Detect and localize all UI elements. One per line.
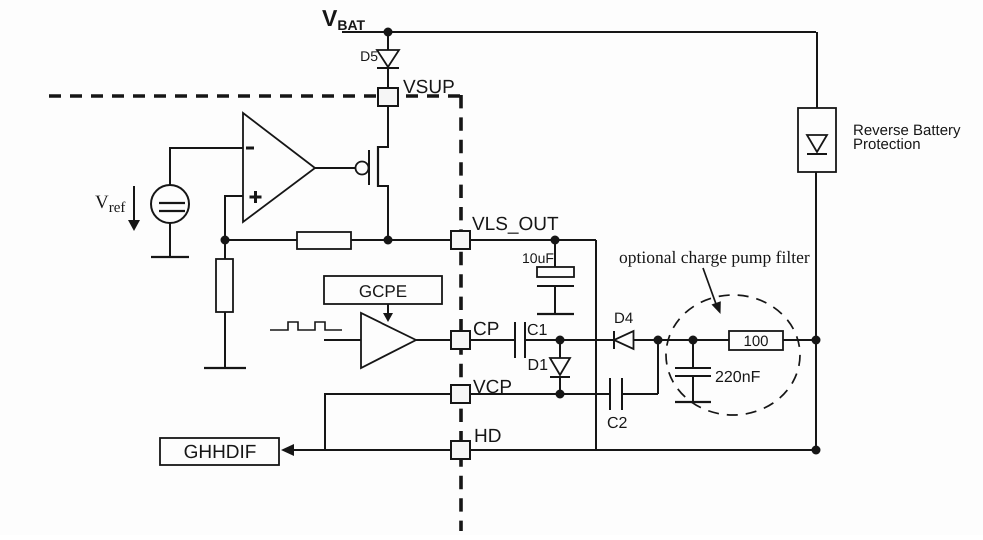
wire op-amp output to gate: [315, 167, 356, 169]
node B junction: [384, 236, 393, 245]
optional filter dashed ellipse: [666, 295, 800, 415]
source Vref: [151, 185, 189, 223]
junction R3/battery net: [812, 336, 821, 345]
wire D4 to node D: [633, 339, 658, 341]
junction VLS_OUT/C10u: [551, 236, 560, 245]
wire HD to battery net: [470, 449, 816, 451]
svg-text:HD: HD: [474, 426, 501, 447]
arrowhead into GHHDIF: [281, 444, 294, 456]
annotation arrow to ellipse: [703, 268, 721, 314]
ground (220nF): [675, 401, 711, 403]
reverse battery protection block: [798, 108, 836, 172]
op-amp U1: [243, 113, 315, 222]
transistor Q1 gate bar: [368, 150, 370, 185]
junction VCP/D1: [556, 390, 565, 399]
wire non-inverting input: [225, 196, 243, 240]
wire Vref to ground: [169, 223, 171, 257]
wire VBAT to D5: [387, 32, 389, 50]
wire node B to VLS_OUT pin: [388, 239, 451, 241]
wire C1 to node C: [525, 339, 560, 341]
wire VBAT to reverse battery block: [816, 32, 818, 108]
node C junction: [556, 336, 565, 345]
wire inverting input to Vref: [170, 148, 243, 185]
svg-text:VLS_OUT: VLS_OUT: [472, 214, 559, 235]
resistor R2: [216, 259, 233, 312]
wire R2 to ground: [224, 312, 226, 368]
pin VCP: [451, 385, 470, 403]
ground (R2): [204, 367, 246, 369]
wire node A to R1: [225, 239, 297, 241]
svg-text:VBAT: VBAT: [322, 5, 366, 33]
diode D1: [550, 340, 570, 394]
pin VLS_OUT: [451, 231, 470, 249]
wire R3 to battery net: [783, 339, 816, 341]
svg-text:C2: C2: [607, 415, 628, 432]
diode D5: [377, 50, 399, 68]
arrow GCPE to buffer: [383, 304, 393, 322]
capacitor C2: [610, 378, 622, 410]
chip boundary dashed horizontal: [49, 94, 461, 98]
wire node D to R3: [658, 339, 729, 341]
svg-text:D5: D5: [360, 48, 378, 64]
svg-text:D1: D1: [528, 357, 549, 374]
vertical net VLS_OUT to HD: [595, 240, 597, 450]
clock waveform symbol: [270, 322, 342, 330]
svg-text:CP: CP: [473, 319, 499, 340]
svg-text:VCP: VCP: [473, 377, 512, 398]
transistor Q1 gate bubble: [356, 162, 369, 175]
GHHDIF block: [160, 438, 279, 465]
resistor R3 100: [729, 331, 783, 350]
svg-text:GCPE: GCPE: [359, 282, 407, 301]
wire VBAT rail: [342, 31, 816, 33]
wire VCP to HD net: [325, 394, 451, 450]
svg-text:optional charge pump filter: optional charge pump filter: [619, 247, 810, 267]
svg-text:VSUP: VSUP: [403, 77, 455, 98]
wire CP to C1: [470, 339, 515, 341]
node D junction: [654, 336, 663, 345]
wire VLS_OUT to vertical net: [470, 239, 596, 241]
capacitor 10uF: [537, 242, 574, 314]
junction HD/battery net: [812, 446, 821, 455]
svg-text:100: 100: [743, 333, 768, 350]
wire C2 to node D: [622, 340, 658, 394]
resistor R1: [297, 232, 351, 249]
arrow Vref direction: [128, 186, 140, 231]
wire node C to D4: [560, 339, 614, 341]
svg-text:Protection: Protection: [853, 136, 921, 153]
wire buffer output to CP pin: [416, 339, 451, 341]
transistor Q1 channel bar: [377, 146, 379, 187]
svg-text:220nF: 220nF: [715, 369, 761, 386]
wire R1 to node B: [351, 239, 388, 241]
wire D5 to VSUP pin: [387, 68, 389, 88]
wire HD to GHHDIF: [293, 449, 451, 451]
GCPE block: [324, 276, 442, 304]
node A junction: [221, 236, 230, 245]
wire node A to R2: [224, 240, 226, 259]
node E junction: [689, 336, 698, 345]
pin VSUP: [378, 88, 398, 106]
chip boundary dashed vertical: [459, 95, 463, 531]
wire reverse battery block down: [815, 172, 817, 450]
diode D4: [614, 331, 634, 349]
capacitor 220nF: [675, 340, 711, 402]
ground (Vref): [151, 256, 189, 258]
svg-text:10uF: 10uF: [522, 250, 554, 266]
pin CP: [451, 331, 470, 349]
ground (10uF): [537, 313, 574, 315]
svg-text:GHHDIF: GHHDIF: [184, 442, 257, 463]
wire VCP to C2: [470, 393, 610, 395]
svg-text:D4: D4: [614, 310, 633, 327]
capacitor C1: [515, 322, 525, 358]
svg-text:C1: C1: [527, 322, 548, 339]
wire buffer input: [324, 339, 361, 341]
pin HD: [451, 441, 470, 459]
buffer amplifier U2: [361, 313, 416, 368]
wire VSUP to transistor drain: [378, 106, 388, 240]
junction VBAT/D5: [384, 28, 393, 37]
svg-text:Vref: Vref: [95, 192, 125, 216]
